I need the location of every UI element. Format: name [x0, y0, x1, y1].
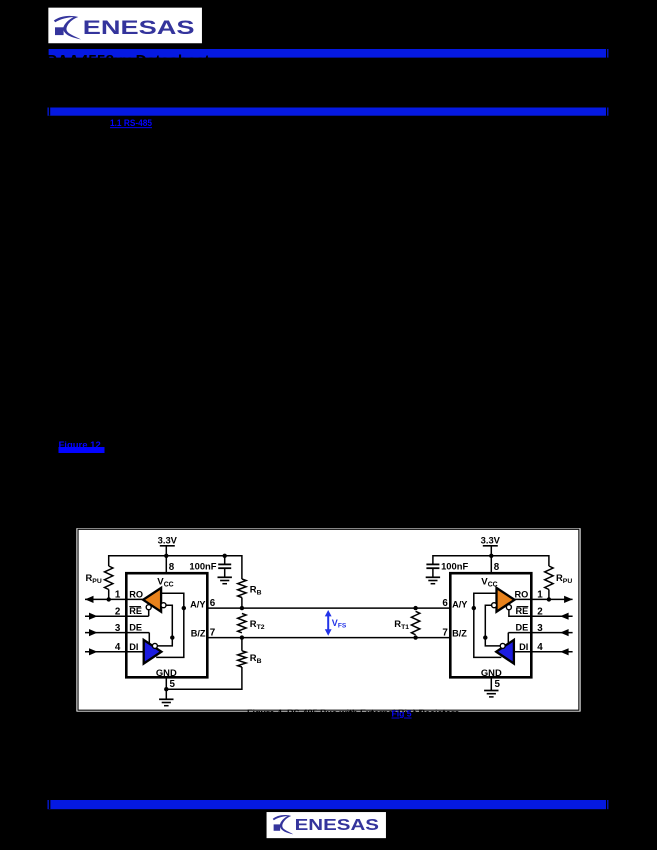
junction RPU/RO (left) [107, 597, 111, 601]
renesas logo (top) [54, 16, 195, 40]
junction RT1/B/Z [413, 635, 417, 639]
resistor RPU (left) [86, 566, 113, 599]
wire receiver A input (left) [161, 593, 184, 608]
ground (right IC) [484, 691, 498, 697]
junction RB/B/Z [240, 635, 244, 639]
label DI (right) [519, 642, 528, 652]
junction RB/A/Y [240, 606, 244, 610]
pin 6 (right) [442, 598, 448, 609]
power 3.3V (right) [481, 535, 501, 556]
label A/Y (right) [452, 599, 467, 609]
ground (left cap) [218, 577, 232, 583]
label VFS [325, 610, 347, 636]
resistor RB lower (left) [166, 638, 261, 690]
svg-text:Fig 5: Fig 5 [392, 709, 412, 719]
svg-text:RE: RE [516, 606, 529, 616]
svg-text:4: 4 [115, 642, 121, 653]
transceiver U2 box (right) [450, 573, 531, 677]
svg-text:RO: RO [129, 589, 143, 599]
wire driver enable DE (right) [507, 633, 509, 644]
renesas logo box (bottom) [266, 812, 387, 839]
label RO (left) [129, 589, 143, 599]
svg-text:5: 5 [170, 679, 176, 690]
junction A/Y internal (right) [472, 606, 476, 610]
svg-text:3: 3 [115, 623, 121, 634]
junction B/Z internal (right) [483, 635, 487, 639]
title bar 2 [48, 108, 609, 116]
pin 7 (left) [210, 628, 216, 639]
wire receiver enable (right) [509, 610, 531, 617]
pin 2 RE wire (left) [85, 606, 149, 619]
receiver U2 (orange, right) [492, 588, 515, 612]
wire receiver B input (left) [166, 605, 172, 637]
label RO (right) [515, 589, 529, 599]
svg-text:3: 3 [537, 623, 543, 634]
junction 3.3V/pin8 (right) [489, 554, 493, 558]
svg-text:8: 8 [494, 562, 500, 573]
label VCC (left) [157, 577, 173, 589]
receiver U1 (orange, left) [143, 588, 166, 612]
white schematic panel [76, 528, 580, 711]
junction B/Z internal (left) [170, 635, 174, 639]
svg-text:7: 7 [442, 628, 448, 639]
wire VCC rail (left) [109, 556, 242, 579]
pin 7 (right) [442, 628, 448, 639]
resistor RT1 [394, 611, 420, 635]
svg-text:3.3V: 3.3V [158, 535, 178, 546]
label B/Z (left) [191, 629, 206, 639]
hyperlink below bar 2 [110, 118, 153, 129]
svg-text:A/Y: A/Y [190, 599, 205, 609]
pin 4 DI wire (right) [512, 642, 572, 655]
svg-text:3.3V: 3.3V [481, 535, 501, 546]
wire receiver B input (right) [485, 605, 491, 637]
label DI (left) [129, 642, 138, 652]
driver U2 (blue, right) [496, 640, 514, 664]
capacitor C2 100nF (right) [426, 560, 468, 577]
driver U1 (blue, left) [144, 640, 162, 664]
pin 5 GND (left) [166, 677, 175, 690]
svg-text:ENESAS: ENESAS [295, 817, 379, 835]
junction RT1/A/Y [413, 606, 417, 610]
label RE (left) [129, 606, 142, 616]
resistor RPU (right) [545, 566, 573, 599]
wire receiver enable (left) [148, 610, 150, 617]
svg-text:DI: DI [129, 642, 138, 652]
renesas logo (bottom) [273, 815, 379, 834]
svg-text:5: 5 [495, 679, 501, 690]
wire driver Z output (right) [485, 638, 500, 646]
power 3.3V (left) [158, 535, 178, 556]
pin 1 RO wire (left) [85, 590, 145, 603]
svg-text:ENESAS: ENESAS [83, 18, 195, 39]
footer bar [48, 800, 609, 809]
svg-text:1: 1 [115, 590, 121, 601]
heading text overlapping bar 1 [46, 49, 210, 70]
junction RPU/RO (right) [547, 597, 551, 601]
pin 6 (left) [210, 598, 216, 609]
label B/Z (right) [452, 629, 467, 639]
svg-text:) Resistors: ) Resistors [413, 708, 460, 718]
pin 5 GND (right) [491, 677, 500, 690]
hyperlink mid page [59, 440, 105, 453]
pin 8 VCC (left) [166, 556, 175, 573]
pin 4 DI wire (left) [85, 642, 145, 655]
wire driver Y output (left) [156, 608, 184, 657]
pin 3 DE wire (left) [85, 623, 149, 636]
svg-text:DE: DE [129, 623, 142, 633]
label VCC (right) [481, 577, 497, 589]
svg-text:6: 6 [442, 598, 448, 609]
wire A/Y bus [207, 607, 450, 609]
junction 3.3V/pin8 (left) [164, 554, 168, 558]
svg-text:8: 8 [169, 562, 175, 573]
wire driver enable DE (left) [148, 633, 150, 644]
label GND (left) [156, 667, 177, 678]
svg-text:GND: GND [156, 667, 177, 678]
svg-text:RAA4558xx Datasheet: RAA4558xx Datasheet [46, 53, 210, 70]
pin 2 RE wire (right) [509, 606, 573, 619]
svg-text:1: 1 [537, 590, 543, 601]
wire receiver A input (right) [474, 593, 497, 608]
label GND (right) [481, 667, 502, 678]
ground (left IC) [159, 689, 173, 706]
pin 8 VCC (right) [491, 556, 500, 573]
svg-text:B/Z: B/Z [452, 629, 467, 639]
svg-text:1.1 RS-485: 1.1 RS-485 [110, 118, 153, 129]
svg-text:A/Y: A/Y [452, 599, 467, 609]
label DE (left) [129, 623, 142, 633]
svg-text:RE: RE [129, 606, 142, 616]
pin 1 RO wire (right) [513, 590, 573, 603]
wire driver Y output (right) [474, 608, 502, 657]
svg-text:DE: DE [516, 623, 529, 633]
svg-text:100nF: 100nF [441, 560, 468, 571]
renesas logo box (top) [48, 7, 203, 44]
wire driver Z output (left) [157, 638, 172, 646]
svg-text:2: 2 [537, 606, 543, 617]
svg-text:B/Z: B/Z [191, 629, 206, 639]
label DE (right) [516, 623, 529, 633]
resistor RT2 [238, 613, 265, 632]
svg-text:GND: GND [481, 667, 502, 678]
junction cap branch (left) [223, 554, 227, 558]
label A/Y (left) [190, 599, 205, 609]
wire B/Z bus [207, 637, 450, 639]
ground (right cap) [426, 577, 440, 583]
wire VCC rail (right) [433, 556, 549, 566]
svg-text:100nF: 100nF [189, 560, 216, 571]
svg-text:2: 2 [115, 606, 121, 617]
junction A/Y internal (left) [182, 606, 186, 610]
label RE (right) [516, 606, 529, 616]
svg-text:DI: DI [519, 642, 528, 652]
junction GND (left) [164, 687, 168, 691]
capacitor C1 100nF (left) [189, 556, 231, 578]
title bar 1 [48, 49, 609, 58]
transceiver U1 box (left) [126, 573, 207, 677]
pin 3 DE wire (right) [508, 623, 572, 636]
figure caption [247, 708, 460, 719]
resistor RB upper (left) [238, 579, 262, 608]
svg-text:4: 4 [537, 642, 543, 653]
svg-text:RO: RO [515, 589, 529, 599]
